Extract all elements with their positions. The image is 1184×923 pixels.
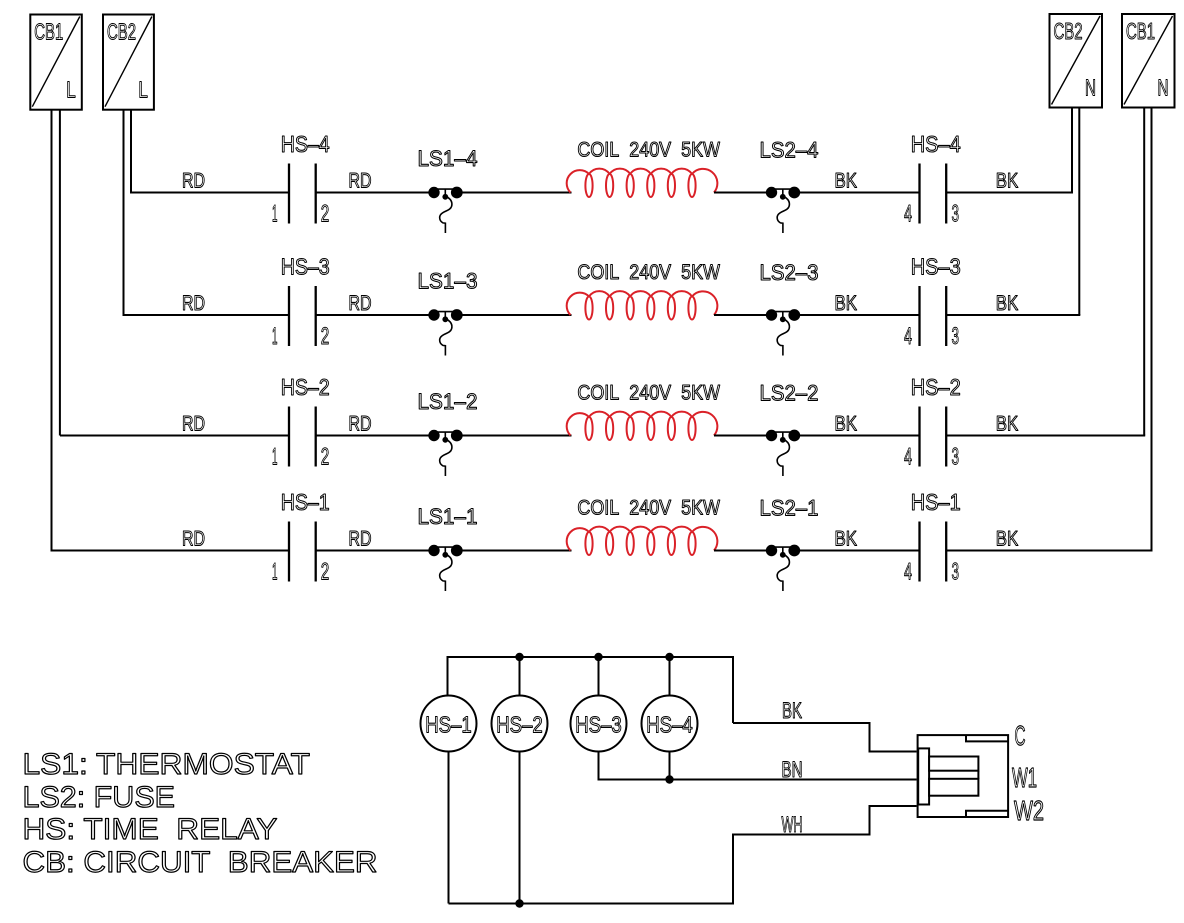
- svg-text:1: 1: [272, 444, 278, 471]
- time relay motor HS-4: [642, 696, 698, 752]
- svg-text:HS–1: HS–1: [281, 489, 330, 515]
- junction dot below HS-4 on BN lead: [665, 775, 673, 783]
- thermostat LS1-3: [428, 309, 462, 355]
- wire HS-1 motor bottom to bottom bus: [448, 752, 450, 904]
- svg-text:3: 3: [952, 444, 960, 471]
- svg-text:4: 4: [904, 323, 912, 350]
- heater coil element (row HS-2): [567, 412, 718, 440]
- thermostat LS1-1: [428, 545, 462, 591]
- svg-text:COIL 240V 5KW: COIL 240V 5KW: [577, 261, 720, 284]
- wire RD feed to HS-3 contact pin 1: [123, 314, 290, 316]
- connector pin junction link: [977, 771, 979, 779]
- svg-text:1: 1: [272, 323, 278, 350]
- svg-text:1: 1: [272, 559, 278, 586]
- time relay contact HS-4 (right, pins 4-3): [920, 164, 947, 224]
- svg-text:HS–1: HS–1: [911, 489, 961, 515]
- wire pin 2 of HS-1 to thermostat LS1-1: [316, 550, 430, 552]
- wire bus to HS-2 motor top: [519, 657, 521, 695]
- time relay contact HS-1 (left, pins 1-2): [289, 522, 316, 582]
- fuse LS2-3: [766, 309, 800, 355]
- time relay contact HS-3 (right, pins 4-3): [920, 286, 947, 346]
- circuit breaker CB2 (neutral side N): [1050, 14, 1103, 108]
- svg-text:HS–2: HS–2: [911, 374, 961, 400]
- svg-text:RD: RD: [349, 170, 372, 193]
- svg-text:4: 4: [904, 444, 912, 471]
- wire pin 3 of HS-1 to neutral breaker: [947, 550, 1153, 552]
- svg-text:CB: CIRCUIT BREAKER: CB: CIRCUIT BREAKER: [23, 846, 378, 879]
- svg-text:BK: BK: [996, 170, 1019, 193]
- svg-text:3: 3: [952, 323, 960, 350]
- svg-text:2: 2: [321, 201, 330, 228]
- wire CB2-L left leg down to HS-3 row: [123, 110, 125, 315]
- heater coil element (row HS-3): [567, 291, 718, 319]
- wire HS-3 motor bottom to BN junction: [599, 752, 670, 780]
- time relay motor HS-3: [571, 696, 627, 752]
- wire CB1-L right leg down to HS-2 row: [59, 110, 61, 436]
- svg-text:BK: BK: [782, 698, 802, 723]
- wire bus to HS-3 motor top: [598, 657, 600, 695]
- wire heater coil to fuse LS2-4: [714, 192, 767, 194]
- svg-text:LS1: THERMOSTAT: LS1: THERMOSTAT: [23, 748, 311, 781]
- svg-text:3: 3: [952, 201, 960, 228]
- wire LS2-1 to HS-1 contact pin 4: [799, 550, 920, 552]
- fuse LS2-4: [766, 187, 800, 233]
- heater coil element (row HS-1): [567, 527, 718, 555]
- svg-text:HS–4: HS–4: [911, 131, 961, 157]
- wire LS1-2 to heater coil: [461, 435, 572, 437]
- svg-text:C: C: [1015, 720, 1026, 751]
- wire BK lead from top bus to connector: [733, 723, 917, 752]
- time relay motor HS-1: [421, 696, 477, 752]
- svg-text:HS–1: HS–1: [425, 712, 472, 738]
- svg-text:2: 2: [321, 444, 330, 471]
- wire pin 2 of HS-2 to thermostat LS1-2: [316, 435, 430, 437]
- svg-text:BK: BK: [996, 413, 1019, 436]
- time relay contact HS-2 (left, pins 1-2): [289, 407, 316, 467]
- svg-text:W2: W2: [1014, 795, 1044, 826]
- wire CB2-L right leg down to HS-4 row: [130, 110, 132, 193]
- wire pin 3 of HS-4 to neutral breaker: [947, 192, 1074, 194]
- time relay contact HS-4 (left, pins 1-2): [289, 164, 316, 224]
- wire LS1-3 to heater coil: [461, 314, 572, 316]
- wire CB2-N left leg down to HS-4 row: [1071, 108, 1073, 193]
- wire heater coil to fuse LS2-1: [714, 550, 767, 552]
- wire pin 3 of HS-3 to neutral breaker: [947, 314, 1081, 316]
- svg-text:RD: RD: [182, 170, 205, 193]
- wire RD feed to HS-1 contact pin 1: [51, 550, 290, 552]
- svg-text:LS2–3: LS2–3: [760, 260, 819, 285]
- wire HS-2 motor bottom to bottom bus: [519, 752, 521, 904]
- svg-text:COIL 240V 5KW: COIL 240V 5KW: [577, 497, 720, 520]
- thermostat LS1-4: [428, 187, 462, 233]
- svg-text:N: N: [1085, 75, 1096, 101]
- svg-text:RD: RD: [182, 413, 205, 436]
- svg-text:CB2: CB2: [1054, 18, 1083, 44]
- svg-text:HS–2: HS–2: [281, 374, 330, 400]
- wire LS2-3 to HS-3 contact pin 4: [799, 314, 920, 316]
- svg-text:COIL 240V 5KW: COIL 240V 5KW: [577, 139, 720, 162]
- svg-text:4: 4: [904, 201, 912, 228]
- wire RD feed to HS-2 contact pin 1: [60, 435, 289, 437]
- fuse LS2-2: [766, 430, 800, 476]
- junction dot above HS-2: [515, 653, 523, 661]
- connector pin upper: [929, 757, 978, 771]
- svg-text:BK: BK: [834, 413, 857, 436]
- thermostat LS1-2: [428, 430, 462, 476]
- svg-text:WH: WH: [782, 812, 803, 837]
- svg-text:BK: BK: [834, 292, 857, 315]
- junction dot at bottom bus below HS-2: [515, 899, 523, 907]
- junction dot above HS-4: [665, 653, 673, 661]
- wire CB1-L left leg down to HS-1 row: [51, 110, 53, 551]
- circuit breaker CB1 (neutral side N): [1122, 14, 1175, 108]
- wire CB1-N left leg down to HS-2 row: [1143, 108, 1145, 436]
- wire heater coil to fuse LS2-3: [714, 314, 767, 316]
- wire LS2-4 to HS-4 contact pin 4: [799, 192, 920, 194]
- svg-text:L: L: [66, 77, 76, 103]
- svg-text:LS1–4: LS1–4: [418, 146, 478, 171]
- svg-text:HS–3: HS–3: [911, 254, 961, 280]
- heater coil element (row HS-4): [567, 169, 718, 197]
- svg-text:3: 3: [952, 559, 960, 586]
- wire bottom bus to WH lead: [449, 806, 917, 904]
- svg-text:CB2: CB2: [107, 19, 136, 45]
- node top bus of time relay motors: [448, 657, 734, 723]
- svg-text:RD: RD: [182, 292, 205, 315]
- time relay motor HS-2: [492, 696, 548, 752]
- connector housing: [918, 735, 1009, 817]
- svg-text:LS1–3: LS1–3: [418, 269, 478, 294]
- circuit breaker CB2 (line side L): [103, 15, 154, 110]
- svg-text:W1: W1: [1012, 762, 1037, 793]
- svg-text:BK: BK: [996, 292, 1019, 315]
- svg-text:HS–2: HS–2: [496, 712, 543, 738]
- svg-text:LS2–2: LS2–2: [760, 381, 819, 406]
- wire LS2-2 to HS-2 contact pin 4: [799, 435, 920, 437]
- svg-text:LS2–4: LS2–4: [760, 138, 819, 163]
- time relay contact HS-1 (right, pins 4-3): [920, 522, 947, 582]
- circuit breaker CB1 (line side L): [30, 15, 82, 110]
- time relay contact HS-2 (right, pins 4-3): [920, 407, 947, 467]
- svg-text:RD: RD: [349, 413, 372, 436]
- svg-text:1: 1: [272, 201, 278, 228]
- svg-text:LS1–2: LS1–2: [418, 389, 478, 414]
- wire pin 2 of HS-4 to thermostat LS1-4: [316, 192, 430, 194]
- svg-text:2: 2: [321, 559, 330, 586]
- svg-text:BK: BK: [834, 170, 857, 193]
- svg-text:RD: RD: [349, 528, 372, 551]
- svg-text:HS–4: HS–4: [281, 131, 330, 157]
- wire RD feed to HS-4 contact pin 1: [130, 192, 289, 194]
- svg-text:CB1: CB1: [1126, 18, 1155, 44]
- wire LS1-1 to heater coil: [461, 550, 572, 552]
- junction dot above HS-3: [594, 653, 602, 661]
- svg-text:HS–4: HS–4: [646, 712, 693, 738]
- svg-text:4: 4: [904, 559, 912, 586]
- svg-text:CB1: CB1: [34, 19, 63, 45]
- svg-text:BN: BN: [782, 757, 803, 782]
- wire pin 3 of HS-2 to neutral breaker: [947, 435, 1146, 437]
- connector pin lower: [929, 779, 978, 796]
- time relay contact HS-3 (left, pins 1-2): [289, 286, 316, 346]
- svg-text:RD: RD: [349, 292, 372, 315]
- wire heater coil to fuse LS2-2: [714, 435, 767, 437]
- svg-text:LS2: FUSE: LS2: FUSE: [23, 781, 176, 814]
- wire HS-4 motor bottom to BN junction: [669, 752, 671, 780]
- svg-text:HS–3: HS–3: [575, 712, 622, 738]
- wire CB1-N right leg down to HS-1 row: [1151, 108, 1153, 551]
- svg-text:LS1–1: LS1–1: [418, 504, 478, 529]
- wire bus to HS-4 motor top: [669, 657, 671, 695]
- wire pin 2 of HS-3 to thermostat LS1-3: [316, 314, 430, 316]
- wire CB2-N right leg down to HS-3 row: [1078, 108, 1080, 316]
- fuse LS2-1: [766, 545, 800, 591]
- svg-text:HS–3: HS–3: [281, 254, 330, 280]
- svg-text:BK: BK: [996, 528, 1019, 551]
- svg-text:HS: TIME RELAY: HS: TIME RELAY: [23, 813, 278, 846]
- svg-text:L: L: [138, 77, 148, 103]
- svg-text:LS2–1: LS2–1: [760, 496, 819, 521]
- wire LS1-4 to heater coil: [461, 192, 572, 194]
- svg-text:COIL 240V 5KW: COIL 240V 5KW: [577, 382, 720, 405]
- connector latch tab: [918, 748, 929, 804]
- svg-text:N: N: [1158, 75, 1169, 101]
- svg-text:RD: RD: [182, 528, 205, 551]
- svg-text:BK: BK: [834, 528, 857, 551]
- wire BN lead to connector: [670, 779, 917, 781]
- svg-text:2: 2: [321, 323, 330, 350]
